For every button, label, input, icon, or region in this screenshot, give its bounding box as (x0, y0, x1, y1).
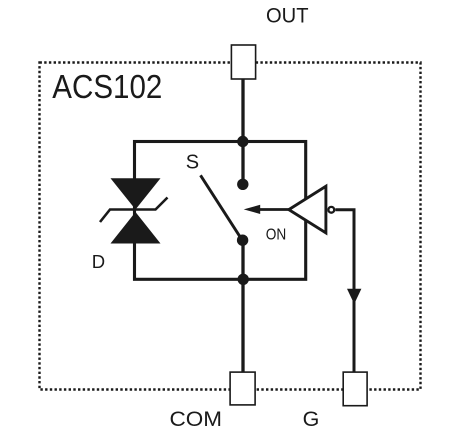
svg-text:S: S (186, 152, 199, 174)
svg-text:OUT: OUT (266, 4, 309, 28)
svg-text:COM: COM (170, 407, 223, 431)
svg-text:ACS102: ACS102 (52, 68, 162, 105)
svg-text:D: D (92, 251, 105, 272)
svg-text:G: G (303, 407, 320, 431)
svg-text:ON: ON (266, 226, 287, 243)
